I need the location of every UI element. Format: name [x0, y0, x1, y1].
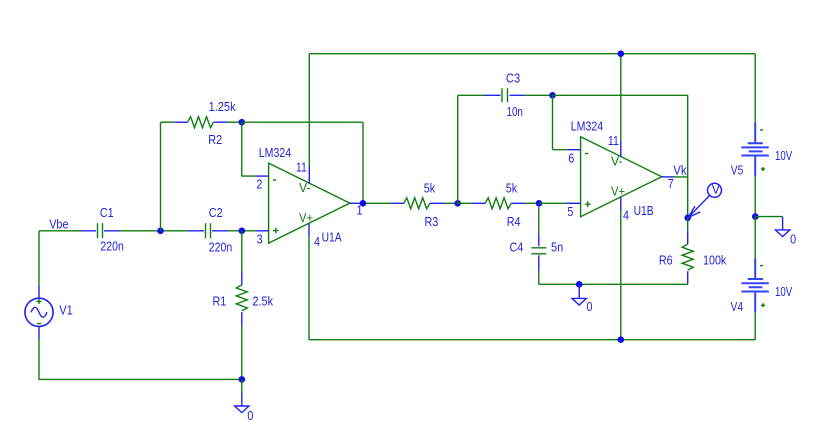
svg-text:V4: V4 — [731, 300, 744, 314]
junction C3 right — [549, 92, 556, 99]
wire C3 left horizontal — [458, 94, 485, 96]
ground 0 (bottom left) — [235, 393, 249, 413]
svg-text:V+: V+ — [611, 185, 625, 199]
wire R4 to junction — [525, 202, 539, 204]
wire C2 to pin3 — [228, 230, 256, 232]
svg-text:R1: R1 — [213, 294, 227, 308]
junction top rail / U1B pin11 — [618, 50, 625, 57]
wire V1 bottom to R1 bottom — [39, 340, 242, 380]
wire C3 junction to output net — [553, 95, 688, 177]
svg-text:6: 6 — [568, 151, 574, 165]
svg-text:V5: V5 — [731, 164, 744, 178]
capacitor C4 — [531, 207, 546, 284]
wire mid junction to V4 — [754, 217, 756, 259]
ground 0 (middle) — [572, 284, 586, 305]
capacitor C2 — [188, 223, 228, 238]
wire R1 bottom — [241, 326, 243, 379]
pin 1 output stub — [350, 202, 360, 204]
wire junction down to pin6 — [553, 95, 568, 149]
pin 5 stub — [566, 202, 581, 204]
pin 4 wire (U1B) — [620, 197, 622, 210]
resistor R1 — [236, 271, 247, 326]
wire junction to pin5 — [539, 202, 566, 204]
svg-text:7: 7 — [668, 177, 674, 191]
wire output to R3 — [360, 202, 391, 204]
svg-text:11: 11 — [608, 134, 619, 148]
op-amp U1A — [269, 163, 350, 243]
svg-text:U1B: U1B — [634, 204, 654, 218]
svg-text:Vk: Vk — [673, 163, 687, 177]
pin 3 stub — [256, 230, 269, 232]
wire R1 top — [241, 231, 243, 272]
pin 4 wire (U1A) — [308, 223, 310, 236]
wire top rail — [309, 53, 755, 55]
svg-text:3: 3 — [257, 232, 263, 246]
wire C3 right — [525, 94, 553, 96]
wire C1 to C2 — [120, 230, 188, 232]
svg-text:10V: 10V — [775, 149, 793, 163]
svg-text:V+: V+ — [299, 211, 313, 225]
svg-text:10n: 10n — [507, 105, 523, 119]
svg-text:C4: C4 — [510, 241, 524, 255]
svg-text:R3: R3 — [425, 215, 439, 229]
wire bottom rail — [309, 339, 755, 341]
wire V5 to mid junction — [754, 176, 756, 217]
svg-text:LM324: LM324 — [259, 146, 291, 160]
pin 11 wire (U1A) — [308, 54, 310, 167]
capacitor C1 — [81, 223, 120, 238]
pin 6 stub — [568, 149, 581, 151]
wire feedback to output — [242, 122, 363, 203]
resistor R2 — [174, 117, 228, 128]
source V1 — [25, 285, 53, 340]
pin 2 stub — [256, 175, 269, 177]
wire node A up to R2 — [160, 122, 162, 231]
wire output to corner — [674, 177, 688, 218]
resistor R3 — [391, 198, 445, 209]
svg-text:220n: 220n — [100, 239, 123, 253]
wire R3 to junction — [445, 202, 458, 204]
svg-text:0: 0 — [587, 300, 593, 314]
svg-text:U1A: U1A — [322, 230, 343, 244]
svg-text:R2: R2 — [208, 133, 222, 147]
wire V5 top — [754, 54, 756, 123]
wire junction down to pin2 — [242, 122, 256, 176]
svg-text:R4: R4 — [507, 215, 521, 229]
wire junction to R4 — [458, 202, 472, 204]
battery V4 — [741, 258, 768, 312]
junction bottom rail / U1B pin4 — [618, 336, 625, 343]
svg-text:R6: R6 — [659, 253, 673, 267]
svg-text:5k: 5k — [506, 181, 518, 195]
svg-text:10V: 10V — [775, 285, 793, 299]
wire V4 bottom — [754, 312, 756, 340]
svg-text:5n: 5n — [551, 241, 563, 255]
wire C3 left vertical — [457, 95, 459, 203]
svg-text:V: V — [712, 183, 721, 197]
svg-text:220n: 220n — [209, 240, 232, 254]
wire to right ground — [755, 216, 782, 218]
wire R6 top — [687, 218, 689, 231]
svg-text:1.25k: 1.25k — [209, 100, 237, 114]
junction R3/R4/C3 — [454, 200, 461, 207]
junction bottom left — [239, 376, 246, 383]
wire V1 top — [38, 231, 40, 285]
wire R2 right to junction — [228, 121, 242, 123]
svg-text:4: 4 — [623, 209, 629, 223]
junction C2/R1/pin3 — [239, 228, 246, 235]
voltage probe — [688, 183, 722, 218]
wire R2 left — [161, 121, 175, 123]
svg-text:0: 0 — [247, 409, 253, 423]
junction R4/C4/pin5 — [536, 200, 543, 207]
svg-text:C2: C2 — [209, 206, 223, 220]
junction mid rail — [752, 213, 759, 220]
resistor R6 — [682, 230, 693, 284]
svg-text:2.5k: 2.5k — [253, 295, 274, 309]
svg-text:4: 4 — [314, 235, 320, 249]
ground 0 (right) — [775, 217, 789, 237]
junction probe/R6 — [684, 215, 691, 222]
wire C4 bottom to R6 bottom — [539, 283, 688, 285]
svg-text:11: 11 — [296, 160, 307, 174]
svg-text:0: 0 — [790, 232, 796, 246]
op-amp U1B — [581, 137, 662, 217]
pin 11 wire (U1B) — [620, 54, 622, 141]
svg-text:C1: C1 — [100, 206, 114, 220]
svg-text:5: 5 — [567, 205, 573, 219]
node A junction — [157, 228, 164, 235]
svg-text:V1: V1 — [59, 303, 73, 317]
junction R2 right — [239, 119, 246, 126]
battery V5 — [741, 122, 768, 176]
pin 7 output stub — [662, 176, 674, 178]
svg-text:Vbe: Vbe — [49, 218, 68, 232]
svg-text:5k: 5k — [424, 181, 436, 195]
junction U1A output — [360, 200, 367, 207]
wire to ground — [241, 379, 243, 393]
svg-text:100k: 100k — [703, 254, 727, 268]
capacitor C3 — [485, 88, 525, 102]
resistor R4 — [472, 198, 526, 209]
svg-text:2: 2 — [256, 178, 262, 192]
svg-text:C3: C3 — [506, 71, 520, 85]
wire Vbe horizontal — [39, 230, 81, 232]
svg-text:LM324: LM324 — [571, 120, 603, 134]
junction ground wire — [576, 281, 583, 288]
